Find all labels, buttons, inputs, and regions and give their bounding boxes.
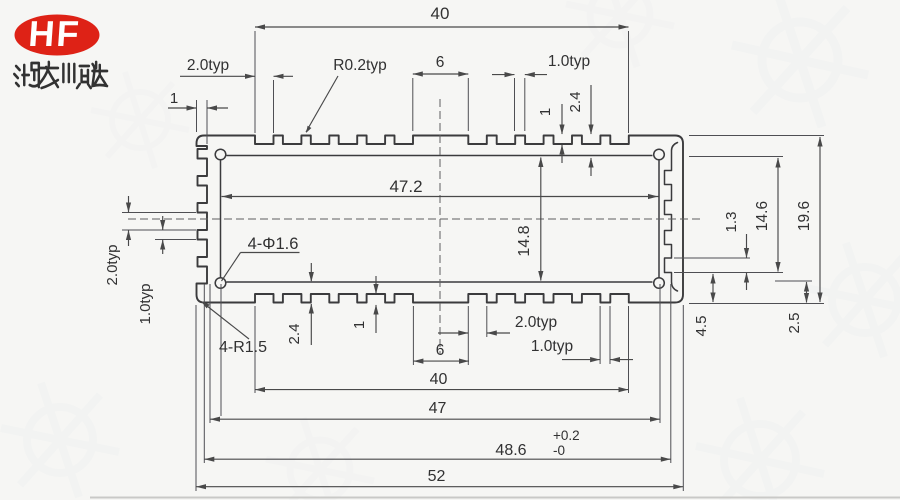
extension lines right side	[689, 135, 824, 137]
svg-text:1.0typ: 1.0typ	[531, 338, 573, 355]
svg-text:14.8: 14.8	[516, 225, 533, 256]
svg-text:40: 40	[431, 4, 450, 23]
corner screw boss hole top-left	[215, 149, 226, 160]
right inner wall	[658, 160, 660, 277]
svg-text:1.0typ: 1.0typ	[137, 284, 154, 325]
leader R0.2typ	[306, 76, 338, 132]
dim 1.0typ bottom	[562, 359, 600, 361]
dim 2.5 right	[806, 282, 808, 303]
dim 6 top	[413, 73, 469, 75]
svg-text:52: 52	[428, 468, 446, 485]
dim 2.0typ bottom	[438, 332, 468, 334]
dim 19.6 overall height	[819, 137, 821, 302]
svg-text:4-Φ1.6: 4-Φ1.6	[248, 235, 299, 253]
HF company logo ellipse	[15, 15, 100, 56]
svg-text:2.4: 2.4	[567, 92, 584, 113]
dim 48.6 with tolerance	[204, 458, 671, 460]
dim 47.2 inner width	[222, 196, 659, 198]
corner screw boss hole bottom-left	[215, 278, 226, 289]
dim 1.0typ left	[162, 216, 164, 230]
dim 40 bottom	[255, 389, 629, 391]
cavity top inner surface	[227, 155, 653, 157]
horizontal centerline	[128, 218, 700, 220]
svg-text:6: 6	[436, 342, 445, 359]
svg-text:2.4: 2.4	[286, 324, 303, 345]
watermark pattern	[732, 0, 868, 127]
svg-text:4-R1.5: 4-R1.5	[219, 339, 267, 356]
svg-text:1: 1	[537, 108, 554, 116]
dim 1 top-left wall thickness	[168, 107, 197, 109]
svg-text:48.6: 48.6	[495, 442, 526, 459]
corner screw boss hole top-right	[654, 149, 665, 160]
svg-text:1.3: 1.3	[723, 212, 740, 233]
svg-text:47.2: 47.2	[389, 177, 422, 196]
svg-text:6: 6	[436, 54, 445, 71]
logo text 鸿发顺达	[14, 62, 107, 88]
extension lines left teeth	[122, 212, 196, 214]
svg-text:HF: HF	[27, 13, 82, 54]
svg-text:14.6: 14.6	[754, 201, 771, 231]
svg-text:+0.2: +0.2	[553, 428, 580, 443]
dim 40 top	[255, 26, 629, 28]
svg-text:2.5: 2.5	[786, 313, 803, 334]
dim 47 bottom	[210, 418, 660, 420]
vertical centerline	[439, 99, 441, 354]
svg-text:1: 1	[351, 321, 368, 329]
svg-text:1: 1	[170, 90, 178, 107]
extension lines top	[254, 31, 256, 133]
leader 4-dia1.6 to corner hole	[241, 252, 300, 254]
scan bottom edge	[90, 497, 900, 499]
svg-text:1.0typ: 1.0typ	[548, 53, 590, 70]
dim 1 top groove depth	[561, 104, 563, 134]
dim 2.0typ left	[128, 196, 130, 213]
dim 2.0typ top-left	[180, 75, 255, 77]
svg-text:-0: -0	[553, 443, 565, 458]
corner screw boss hole bottom-right	[654, 278, 665, 289]
dim 4.5 right	[712, 274, 714, 302]
svg-text:47: 47	[429, 400, 447, 417]
dim 14.8 inner height	[540, 158, 542, 281]
svg-text:4.5: 4.5	[693, 316, 710, 337]
dim 52 overall	[196, 486, 683, 488]
extension lines bottom	[254, 306, 256, 393]
dim 2.4 top	[590, 85, 592, 134]
dim 6 bottom	[413, 360, 469, 362]
svg-text:40: 40	[430, 371, 448, 388]
left inner wall	[220, 160, 222, 277]
svg-text:R0.2typ: R0.2typ	[333, 57, 386, 74]
dim 2.4 bottom	[310, 304, 312, 345]
extension lines for 1 dim top-left	[196, 100, 198, 132]
dim 14.6 right	[777, 158, 779, 272]
cavity bottom inner surface	[227, 281, 653, 283]
dim 1 bottom	[375, 305, 377, 333]
svg-text:19.6: 19.6	[796, 201, 813, 231]
svg-text:2.0typ: 2.0typ	[104, 245, 121, 286]
svg-text:2.0typ: 2.0typ	[515, 314, 557, 331]
right wall inner ribbed panel slot	[665, 143, 678, 292]
dim 1.0typ top	[492, 74, 515, 76]
leader 4-R1.5 to corner radius	[202, 302, 249, 339]
dim 1.3 right	[746, 234, 748, 258]
extrusion profile outer outline with serrated top and bottom	[197, 136, 684, 303]
svg-text:2.0typ: 2.0typ	[187, 57, 229, 74]
